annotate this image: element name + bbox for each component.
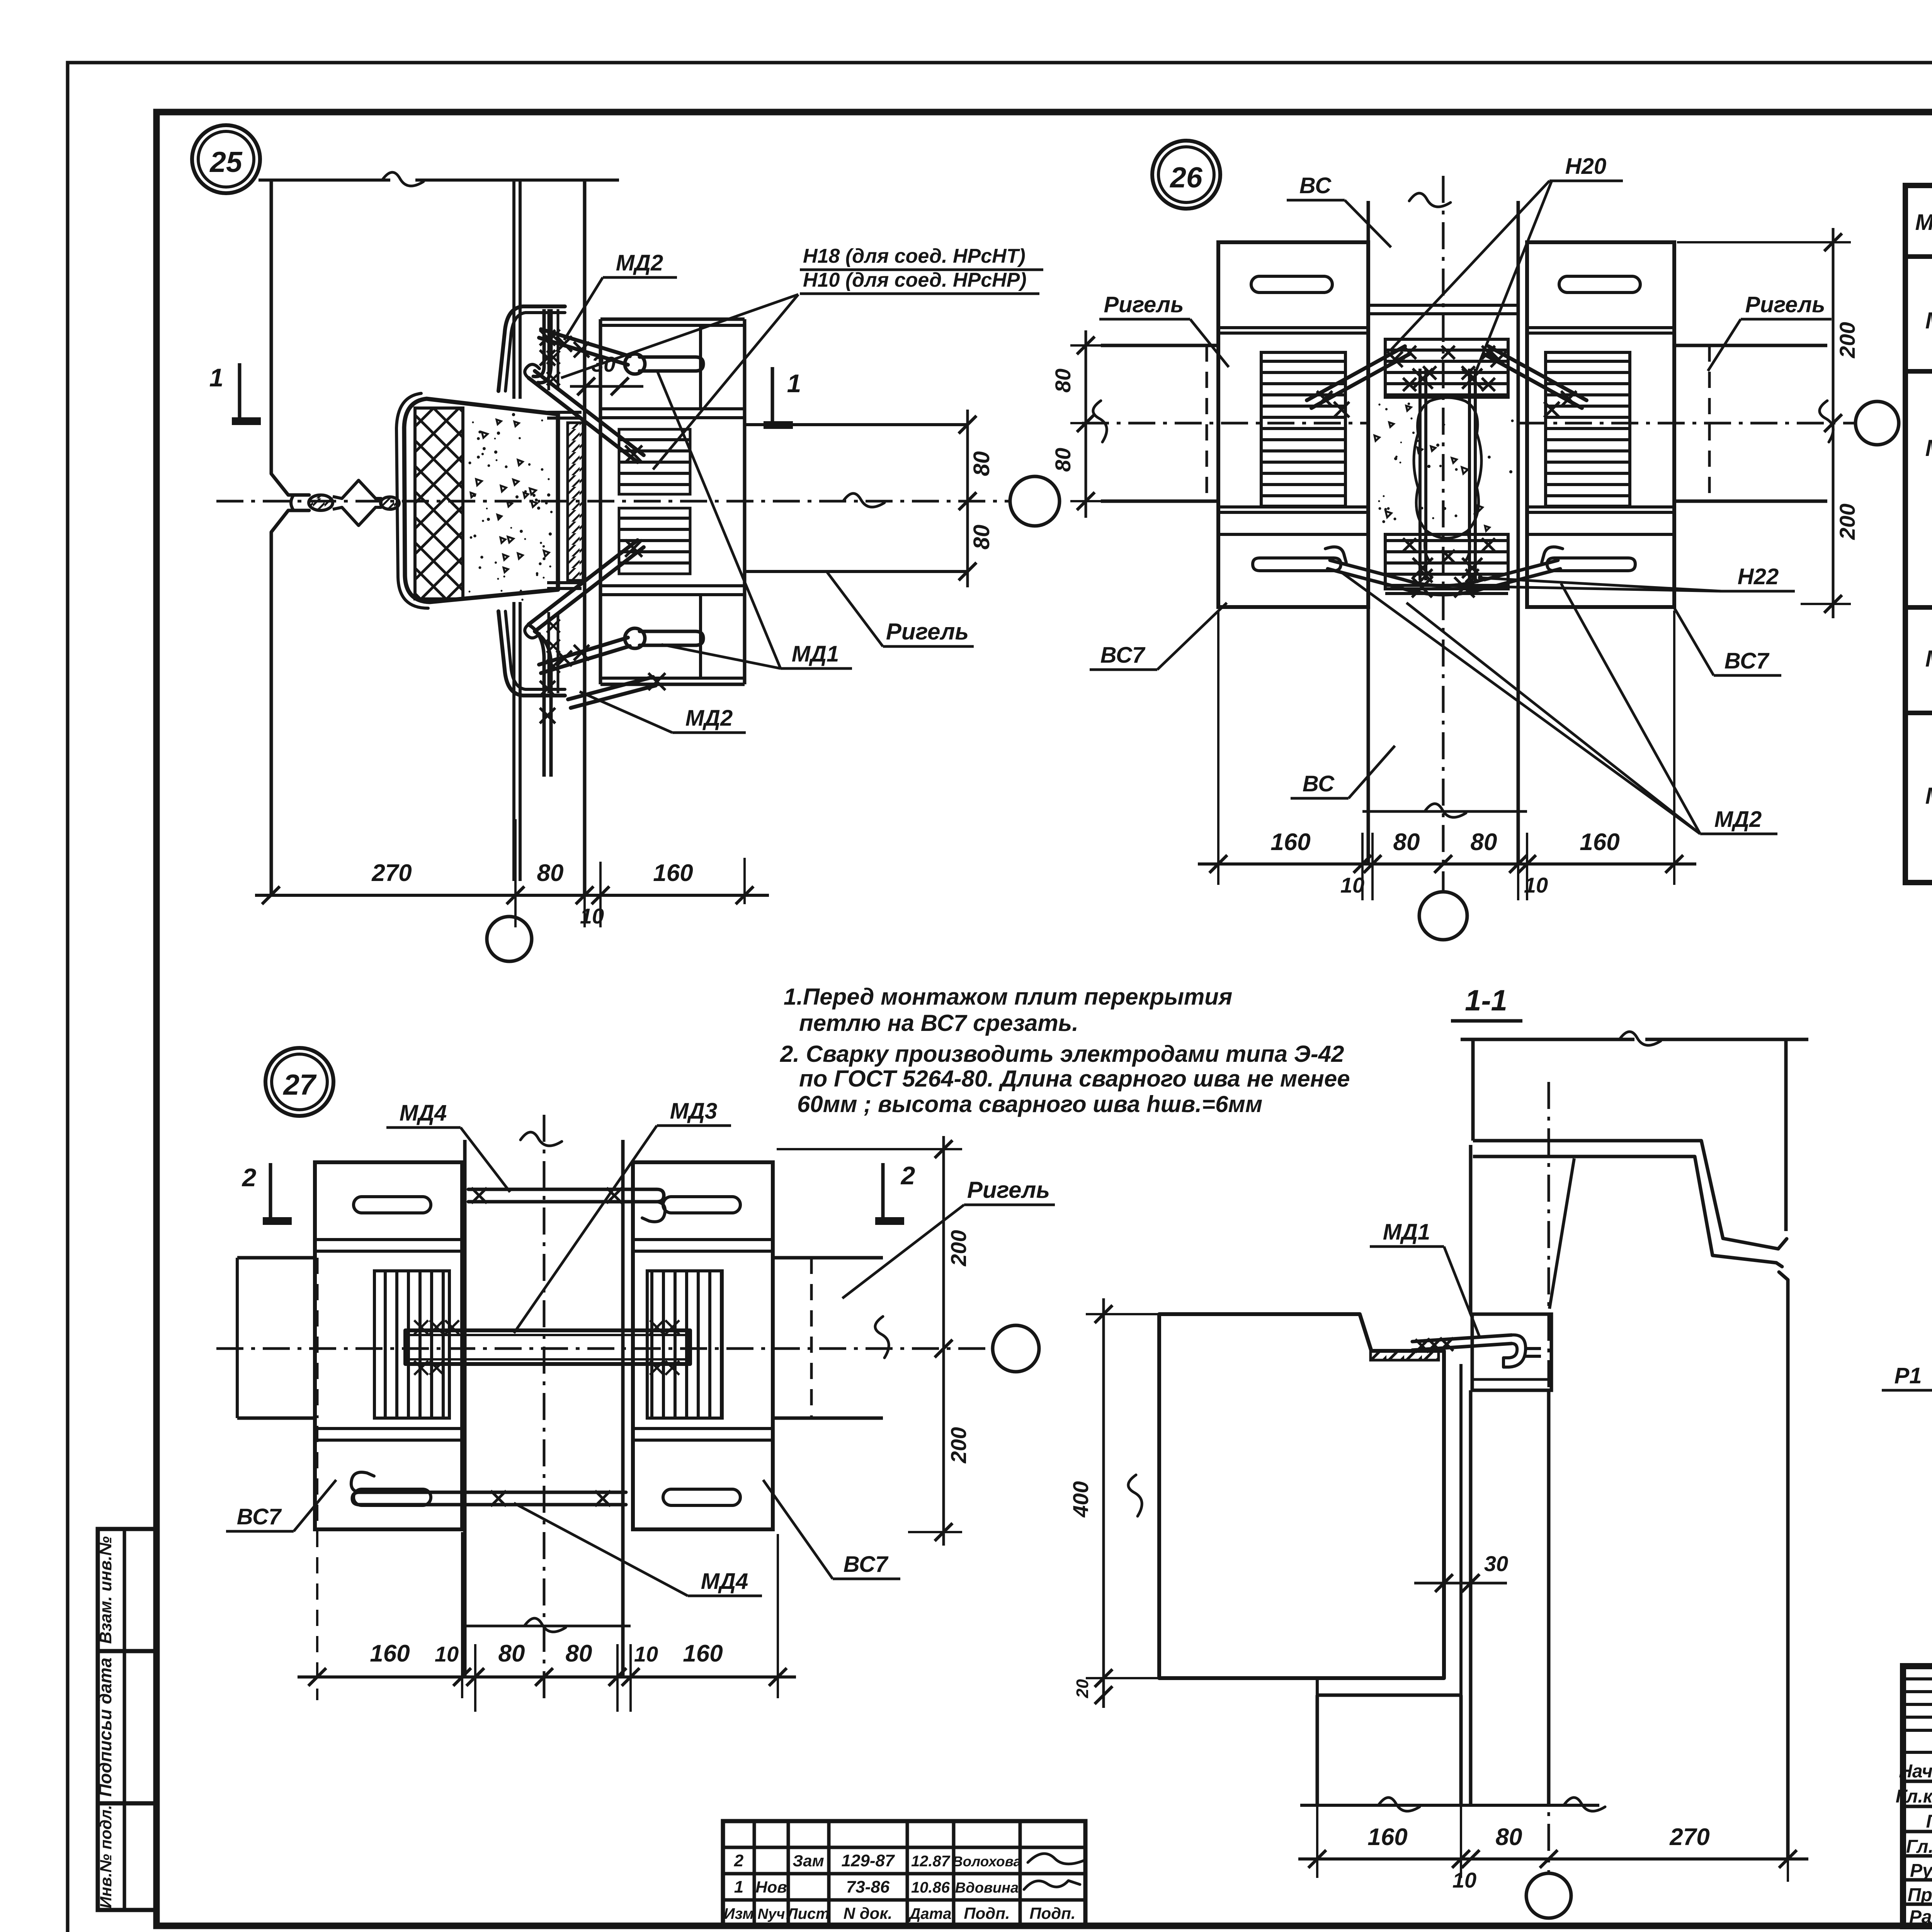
- svg-text:Марка: Марка: [1915, 210, 1932, 235]
- detail 27 column lines: [463, 1140, 467, 1677]
- svg-text:80: 80: [1471, 829, 1497, 855]
- section 1-1 joint gap line: [1459, 1364, 1463, 1805]
- svg-text:Р1: Р1: [1895, 1363, 1922, 1388]
- detail 25 joint seal channel: [333, 497, 342, 498]
- detail 26 column lines: [1367, 201, 1370, 864]
- svg-text:Н20: Н20: [1565, 154, 1606, 179]
- detail 27 left beam: [237, 1256, 315, 1260]
- svg-text:Зам: Зам: [793, 1852, 824, 1870]
- svg-text:1: 1: [209, 363, 224, 392]
- svg-text:80: 80: [498, 1640, 525, 1667]
- svg-text:400: 400: [1068, 1481, 1093, 1517]
- svg-text:80: 80: [566, 1640, 592, 1667]
- detail 25 bubble: [192, 125, 260, 193]
- section 1-1 wall centerline: [1548, 1082, 1550, 1873]
- svg-text:ВС7: ВС7: [1100, 643, 1146, 668]
- svg-text:25: 25: [209, 146, 243, 178]
- svg-text:80: 80: [1051, 448, 1075, 472]
- detail 25 joint sealant strips: [568, 423, 583, 580]
- svg-text:ВС7: ВС7: [1725, 648, 1770, 673]
- detail 26 right panel VS7: [1527, 242, 1674, 607]
- svg-text:Разраб.: Разраб.: [1909, 1907, 1932, 1927]
- detail 27 bubble: [265, 1048, 333, 1116]
- detail 26 left panel VS7: [1218, 242, 1368, 607]
- detail 27 section mark 2 right: [881, 1163, 885, 1221]
- detail 27 left panel VS7: [315, 1162, 462, 1529]
- section 1-1 wall lines: [1469, 1145, 1473, 1314]
- detail 25 section mark 1 left: [238, 363, 241, 421]
- detail 25 beam continuation lines: [745, 423, 968, 426]
- detail 25 joint seal bead 1: [309, 495, 333, 510]
- detail 25 lower joint strip: [548, 612, 550, 693]
- svg-text:МД1: МД1: [1383, 1219, 1430, 1245]
- svg-text:Вдовина: Вдовина: [955, 1880, 1019, 1896]
- svg-text:160: 160: [1270, 829, 1310, 855]
- svg-text:ГАП: ГАП: [1926, 1811, 1932, 1832]
- svg-text:1-1: 1-1: [1465, 984, 1507, 1017]
- svg-text:160: 160: [683, 1640, 723, 1667]
- section 1-1 axis circle: [1526, 1873, 1571, 1918]
- detail 25 joint concrete strip dots: [518, 419, 560, 583]
- svg-text:2: 2: [900, 1161, 915, 1190]
- detail 25 top shallow bar MD2: [539, 329, 630, 365]
- detail 26 left beam: [1101, 344, 1218, 347]
- svg-text:N док.: N док.: [844, 1904, 893, 1922]
- svg-text:Ригель: Ригель: [886, 619, 969, 645]
- svg-text:МД1: МД1: [1925, 308, 1932, 333]
- svg-text:10: 10: [1452, 1868, 1476, 1892]
- svg-text:Провер.: Провер.: [1908, 1885, 1932, 1905]
- detail 25 bottom dim line: [255, 894, 769, 897]
- svg-text:Нач.АПМ1: Нач.АПМ1: [1899, 1761, 1932, 1782]
- svg-text:Подп.: Подп.: [964, 1904, 1010, 1922]
- detail 25 beam end dim 80 80: [966, 410, 969, 587]
- svg-text:160: 160: [370, 1640, 410, 1667]
- svg-text:26: 26: [1169, 161, 1203, 194]
- section 1-1 support pad hatch: [1371, 1351, 1439, 1360]
- svg-text:МД2: МД2: [616, 250, 663, 276]
- svg-text:Гл.констр: Гл.констр: [1896, 1786, 1932, 1807]
- section 1-1 beam top edges: [1473, 1139, 1701, 1143]
- svg-text:2. Сварку производить электр: 2. Сварку производить электродами типа Э…: [780, 1041, 1344, 1067]
- svg-text:270: 270: [1669, 1824, 1709, 1850]
- detail 25 top slab edge line: [259, 179, 390, 182]
- section 1-1 beam end steep chamfer: [1701, 1141, 1787, 1249]
- svg-text:10.86: 10.86: [911, 1879, 950, 1896]
- revision table: [723, 1821, 1085, 1926]
- svg-text:Nуч: Nуч: [758, 1906, 785, 1922]
- detail 25 leader lines from H labels: [561, 294, 798, 378]
- detail 27 centerline horizontal: [216, 1347, 993, 1350]
- detail 26 concrete blob in joint: [1414, 398, 1481, 538]
- svg-text:Рук. гр.: Рук. гр.: [1910, 1861, 1932, 1881]
- detail 26 bottom dim line: [1198, 862, 1696, 866]
- svg-text:200: 200: [946, 1230, 971, 1266]
- detail 25 bottom shallow bar MD2: [539, 638, 630, 673]
- svg-text:10: 10: [1340, 873, 1364, 897]
- detail 27 column centerline: [543, 1115, 546, 1700]
- detail 25 top eye bar H18: [625, 354, 645, 374]
- svg-text:1.Перед монтажом плит перек: 1.Перед монтажом плит перекрытия: [784, 984, 1232, 1010]
- svg-text:по ГОСТ 5264-80. Длина сварно: по ГОСТ 5264-80. Длина сварного шва не м…: [799, 1066, 1350, 1092]
- detail 25 axis circle bottom: [487, 917, 532, 961]
- detail 26 top diagonal bar left: [1307, 346, 1410, 408]
- detail 25 bottom connector rod: [543, 657, 546, 777]
- detail 26 joint bottom block: [1385, 534, 1508, 589]
- title block: [1903, 1666, 1932, 1926]
- svg-text:МД2: МД2: [1925, 435, 1932, 461]
- section 1-1 beam end break: [1776, 1263, 1782, 1267]
- revision signature 1: [1028, 1854, 1084, 1864]
- detail 27 left panel key hatch: [374, 1271, 449, 1418]
- svg-text:80: 80: [969, 525, 994, 550]
- detail 25 joint seal funnel: [271, 474, 309, 495]
- svg-text:МД1: МД1: [792, 641, 839, 667]
- detail 25 lower hook assembly: [568, 677, 653, 699]
- detail 25 dim 30: [570, 385, 643, 388]
- svg-text:ВС: ВС: [1299, 173, 1332, 198]
- detail 27 right panel VS7: [633, 1162, 773, 1529]
- detail 26 beams centerline: [1082, 422, 1368, 425]
- detail 26 bottom hook rod right: [1547, 558, 1635, 571]
- detail 26 joint top block: [1368, 304, 1518, 307]
- detail 25 top connector rod: [543, 309, 546, 367]
- detail 26 right panel key hatch: [1546, 352, 1630, 506]
- detail 25 horizontal centerline: [216, 500, 1009, 503]
- svg-text:Лист: Лист: [786, 1905, 830, 1922]
- detail 25 bottom steep bar: [529, 540, 644, 631]
- svg-text:1: 1: [734, 1878, 743, 1896]
- detail 26 bottom sag bar: [1401, 588, 1485, 595]
- svg-text:ВС7: ВС7: [844, 1552, 889, 1577]
- svg-text:МД3: МД3: [670, 1099, 717, 1124]
- svg-text:10: 10: [580, 904, 604, 928]
- svg-text:Взам. инв.№: Взам. инв.№: [96, 1536, 115, 1644]
- detail 25 joint seal rhombus: [342, 480, 376, 526]
- svg-text:73-86: 73-86: [846, 1878, 890, 1896]
- svg-text:20: 20: [1073, 1679, 1092, 1698]
- detail 27 section mark 2 left: [269, 1163, 272, 1221]
- detail 26 inner dim line with break: [1362, 810, 1527, 813]
- svg-text:160: 160: [653, 860, 693, 886]
- section 1-1 upper wall panel: [1461, 1038, 1634, 1041]
- svg-text:27: 27: [282, 1068, 317, 1101]
- svg-text:60мм ; высота сварного шва: 60мм ; высота сварного шва hшв.=6мм: [797, 1091, 1262, 1117]
- svg-text:МД4: МД4: [400, 1100, 447, 1126]
- svg-text:Дата: Дата: [908, 1905, 952, 1922]
- svg-text:Нов: Нов: [755, 1878, 787, 1896]
- detail 25 wall outer edge vertical: [270, 180, 273, 474]
- svg-text:Н22: Н22: [1738, 564, 1779, 589]
- detail 26 axis circle right: [1855, 401, 1899, 445]
- detail 25 section mark 1 right: [771, 367, 774, 425]
- detail 26 right dim 200 200: [1832, 228, 1835, 618]
- detail 25 top steep bar: [529, 371, 644, 462]
- detail 25 column right face: [583, 180, 587, 895]
- svg-text:270: 270: [371, 860, 412, 886]
- detail 25 upper wall panel: [498, 306, 565, 391]
- detail 25 panel inner face lines: [512, 180, 515, 399]
- detail 26 column centerline: [1442, 176, 1445, 893]
- svg-text:Подписьи дата: Подписьи дата: [95, 1658, 115, 1797]
- detail 25 bottom eye bar: [625, 628, 645, 648]
- detail 25 axis circle right: [1010, 476, 1060, 526]
- svg-text:Волохова: Волохова: [952, 1854, 1021, 1869]
- detail 27 right panel key hatch: [647, 1271, 722, 1418]
- detail 25 joint seal bead 2: [381, 497, 399, 509]
- svg-text:Ригель: Ригель: [967, 1177, 1050, 1203]
- detail 26 top diagonal bar right: [1484, 346, 1587, 408]
- section 1-1 dim 20: [1095, 1686, 1112, 1704]
- detail 27 axis circle right: [993, 1325, 1039, 1372]
- svg-text:МД2: МД2: [1714, 807, 1762, 832]
- detail 26 right beam: [1674, 344, 1827, 347]
- detail 27 central plate MD3: [405, 1330, 690, 1364]
- detail 27 bottom rod MD4: [352, 1492, 626, 1505]
- detail 27 bottom dim line: [298, 1675, 796, 1679]
- svg-text:МД2: МД2: [685, 706, 733, 731]
- svg-text:129-87: 129-87: [841, 1851, 895, 1870]
- svg-text:МД3: МД3: [1925, 646, 1932, 672]
- detail 26 axis circle bottom: [1419, 892, 1467, 940]
- detail 25 upper joint strip: [548, 309, 550, 390]
- svg-text:Ригель: Ригель: [1745, 292, 1825, 317]
- svg-text:200: 200: [946, 1427, 971, 1463]
- svg-text:2: 2: [734, 1851, 744, 1870]
- svg-text:ВС: ВС: [1303, 771, 1335, 796]
- detail 26 vertical rods in joint: [1418, 369, 1422, 580]
- svg-text:Изм: Изм: [724, 1905, 754, 1922]
- detail 26 joint concrete dots: [1374, 403, 1514, 531]
- svg-text:МД4: МД4: [1925, 783, 1932, 809]
- svg-text:2: 2: [241, 1163, 257, 1192]
- svg-text:30: 30: [1484, 1551, 1508, 1576]
- svg-text:80: 80: [537, 860, 564, 886]
- svg-text:Н10 (для соед. НРсНР): Н10 (для соед. НРсНР): [803, 269, 1027, 291]
- detail 27 top rod MD4: [468, 1189, 664, 1202]
- svg-text:200: 200: [1835, 322, 1859, 358]
- detail 25 middle wall panel (bathtub): [404, 399, 558, 602]
- svg-text:160: 160: [1367, 1824, 1407, 1850]
- svg-text:80: 80: [1496, 1824, 1522, 1850]
- detail 25 beam (rigel) outline: [600, 318, 745, 321]
- section 1-1 slab bottom second line: [1317, 1694, 1461, 1697]
- detail 26 bottom diagonal rod left: [1328, 560, 1403, 588]
- svg-text:80: 80: [969, 451, 994, 476]
- svg-text:160: 160: [1580, 829, 1619, 855]
- detail 25 lower wall panel: [498, 611, 565, 696]
- section 1-1 console pocket: [1472, 1314, 1551, 1390]
- svg-text:200: 200: [1835, 503, 1859, 540]
- section 1-1 line with breaks: [1300, 1804, 1599, 1807]
- section 1-1 slab outline: [1159, 1314, 1444, 1678]
- svg-text:80: 80: [1051, 369, 1075, 393]
- section 1-1 MD1 bar: [1412, 1335, 1512, 1350]
- left margin stamp boxes: [98, 1529, 156, 1910]
- svg-text:ВС7: ВС7: [237, 1504, 282, 1529]
- svg-text:МД4: МД4: [701, 1569, 748, 1594]
- detail 27 inner dim line with break: [462, 1625, 631, 1628]
- detail 25 concrete area of panel: [468, 413, 552, 601]
- svg-text:Н18 (для соед. НРсНТ): Н18 (для соед. НРсНТ): [803, 245, 1026, 267]
- svg-text:1: 1: [787, 369, 801, 398]
- section 1-1 dim 400: [1102, 1298, 1105, 1708]
- section 1-1 bottom dim: [1298, 1857, 1808, 1861]
- detail 26 bubble: [1152, 141, 1220, 209]
- parts table: [1905, 185, 1932, 883]
- svg-text:10: 10: [435, 1642, 459, 1666]
- svg-text:Гл.спец.: Гл.спец.: [1906, 1837, 1932, 1857]
- svg-text:Инв.№ подл.: Инв.№ подл.: [97, 1805, 115, 1908]
- detail 26 bottom hook rod left: [1253, 558, 1341, 571]
- svg-text:петлю на ВС7 срезать.: петлю на ВС7 срезать.: [799, 1010, 1078, 1036]
- detail 26 left panel key hatch: [1261, 352, 1345, 506]
- svg-text:10: 10: [634, 1642, 658, 1666]
- svg-text:80: 80: [1393, 829, 1420, 855]
- detail 27 right beam: [773, 1256, 883, 1260]
- detail 26 left dim 80 80: [1085, 330, 1087, 518]
- section 1-1 beam haunch diagonal: [1549, 1158, 1574, 1309]
- revision signature 2: [1024, 1881, 1080, 1889]
- detail 25 beam keys hatch: [619, 429, 690, 494]
- section 1-1 dim 30: [1414, 1582, 1507, 1585]
- svg-text:Ригель: Ригель: [1104, 292, 1184, 317]
- detail 27 right dim 200 200: [942, 1136, 945, 1546]
- svg-text:Подп.: Подп.: [1029, 1904, 1075, 1922]
- svg-text:12.87: 12.87: [911, 1853, 951, 1870]
- detail 26 bottom diagonal rod right: [1485, 560, 1560, 588]
- svg-text:10: 10: [1524, 873, 1548, 897]
- detail 25 shelf plates: [547, 411, 582, 414]
- detail 25 insulation crosshatch strip: [415, 408, 463, 599]
